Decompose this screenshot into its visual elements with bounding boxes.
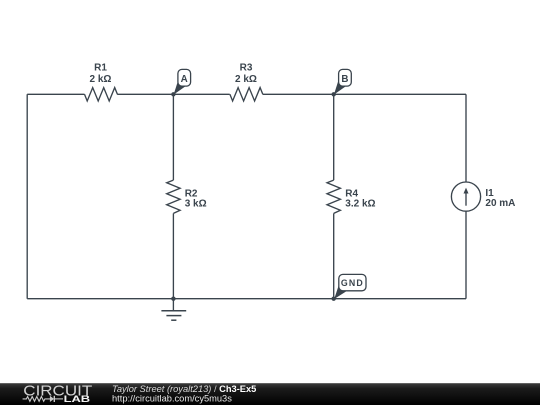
wire: top horizontal from node A to R3 — [173, 93, 229, 95]
svg-text:3 kΩ: 3 kΩ — [185, 199, 207, 210]
wire: top horizontal from node B to right corner — [334, 93, 466, 95]
svg-text:R1: R1 — [94, 63, 107, 74]
junction dot at node B — [332, 92, 336, 96]
resistor R1 (2 kOhm, horizontal) — [85, 63, 118, 101]
svg-text:2 kΩ: 2 kΩ — [90, 74, 112, 85]
node GND label flag — [334, 274, 366, 299]
node B label flag — [334, 69, 351, 94]
resistor R2 (3 kOhm, vertical) — [167, 180, 207, 213]
wire: R4 down to bottom wire — [333, 213, 335, 298]
current source I1 (20 mA) — [451, 182, 515, 211]
wire: right vertical below I1 — [465, 211, 467, 298]
svg-text:R3: R3 — [240, 63, 253, 74]
svg-text:B: B — [341, 74, 348, 85]
footer bar — [0, 383, 540, 405]
resistor R4 (3.2 kOhm, vertical) — [327, 180, 376, 213]
svg-text:20 mA: 20 mA — [485, 198, 515, 209]
wire: left vertical side — [26, 94, 28, 298]
svg-text:2 kΩ: 2 kΩ — [235, 74, 257, 85]
wire: top horizontal from R3 to node B — [263, 93, 334, 95]
resistor R3 (2 kOhm, horizontal) — [230, 63, 263, 101]
wire: R2 down to bottom wire — [172, 213, 174, 298]
junction dot at node A — [171, 92, 175, 96]
wire: node B down to R4 — [333, 94, 335, 180]
CircuitLab logo schematic squiggle (resistor + diode) — [23, 396, 63, 402]
node A label flag — [174, 69, 191, 94]
wire: top horizontal from R1 to node A — [117, 93, 173, 95]
junction dot at ground connection — [171, 297, 175, 301]
ground symbol — [161, 299, 186, 321]
svg-text:A: A — [181, 74, 188, 85]
wire: bottom horizontal — [27, 298, 466, 300]
svg-text:3.2 kΩ: 3.2 kΩ — [345, 199, 375, 210]
svg-text:Taylor Street (royalt213) / Ch: Taylor Street (royalt213) / Ch3-Ex5 — [112, 384, 256, 394]
wire: top-left horizontal (left corner to R1) — [27, 93, 84, 95]
wire: node A down to R2 — [172, 94, 174, 180]
svg-text:http://circuitlab.com/cy5mu3s: http://circuitlab.com/cy5mu3s — [112, 393, 232, 403]
junction dot at GND node — [332, 297, 336, 301]
svg-text:LAB: LAB — [64, 393, 91, 404]
wire: right vertical above I1 — [465, 94, 467, 182]
svg-text:GND: GND — [341, 278, 364, 288]
